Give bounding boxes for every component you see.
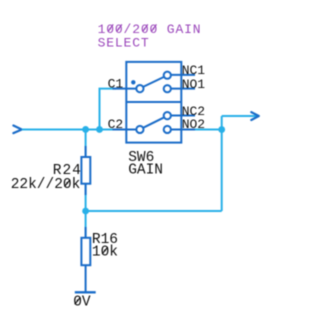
pole2 NC contact: [164, 112, 171, 119]
0V zero slash: [75, 297, 81, 304]
pole1 NC contact: [164, 72, 171, 79]
svg-text:NO2: NO2: [182, 117, 205, 132]
pin NC1: [172, 74, 196, 76]
resistor R16: [81, 227, 90, 292]
svg-text:22k//20k: 22k//20k: [11, 177, 81, 193]
junction dot D: [82, 208, 89, 215]
value zero slash: [64, 180, 70, 187]
switch SW6: [113, 62, 196, 143]
pole1 NO contact: [164, 85, 171, 92]
svg-text:SELECT: SELECT: [98, 35, 150, 50]
R24 body: [81, 157, 90, 184]
R16 body: [81, 238, 90, 265]
output port arrow: [251, 112, 258, 120]
10k zero slash: [102, 247, 108, 254]
title text 100/200 GAIN SELECT: [98, 22, 202, 51]
svg-text:NC1: NC1: [182, 63, 206, 78]
svg-text:10k: 10k: [92, 244, 118, 260]
pole2 lever: [144, 118, 164, 128]
wire: bottom horizontal: [86, 210, 222, 212]
wire: R24 bottom to R16 top: [85, 184, 87, 238]
svg-text:C1: C1: [108, 76, 124, 91]
wire: right vertical: [221, 116, 223, 211]
pin NO1: [172, 88, 196, 90]
switch divider: [126, 101, 181, 103]
svg-text:GAIN: GAIN: [128, 162, 163, 178]
wire: branch up to C1: [100, 89, 117, 130]
junction dot C: [218, 126, 225, 133]
pole2 common contact: [136, 126, 143, 133]
svg-text:C2: C2: [108, 117, 124, 132]
wire: NO2 to junction: [195, 128, 222, 130]
R16 pin bottom: [85, 265, 87, 292]
title zero slashes: [108, 24, 156, 31]
R24 pin bottom: [85, 184, 87, 195]
resistor R24: [81, 146, 90, 195]
pole2 NO contact: [164, 126, 171, 133]
pole1 position dot: [131, 80, 135, 84]
ground symbol: [75, 291, 96, 293]
svg-text:NO1: NO1: [182, 77, 206, 92]
input port arrow: [13, 126, 21, 134]
R24 pin top: [85, 146, 87, 157]
R16 pin top: [85, 227, 87, 238]
junction dot A: [82, 126, 89, 133]
pin C1: [113, 88, 136, 90]
junction dot B: [96, 126, 103, 133]
switch body box: [126, 62, 181, 143]
pin NC2: [172, 115, 196, 117]
wire: down to R24: [85, 129, 87, 157]
pin NO2: [172, 128, 196, 130]
pole1 lever: [144, 77, 164, 87]
pole1 common contact: [136, 85, 143, 92]
wire: output horizontal: [222, 115, 257, 117]
wire: input horizontal: [22, 128, 116, 130]
pin C2: [113, 128, 136, 130]
